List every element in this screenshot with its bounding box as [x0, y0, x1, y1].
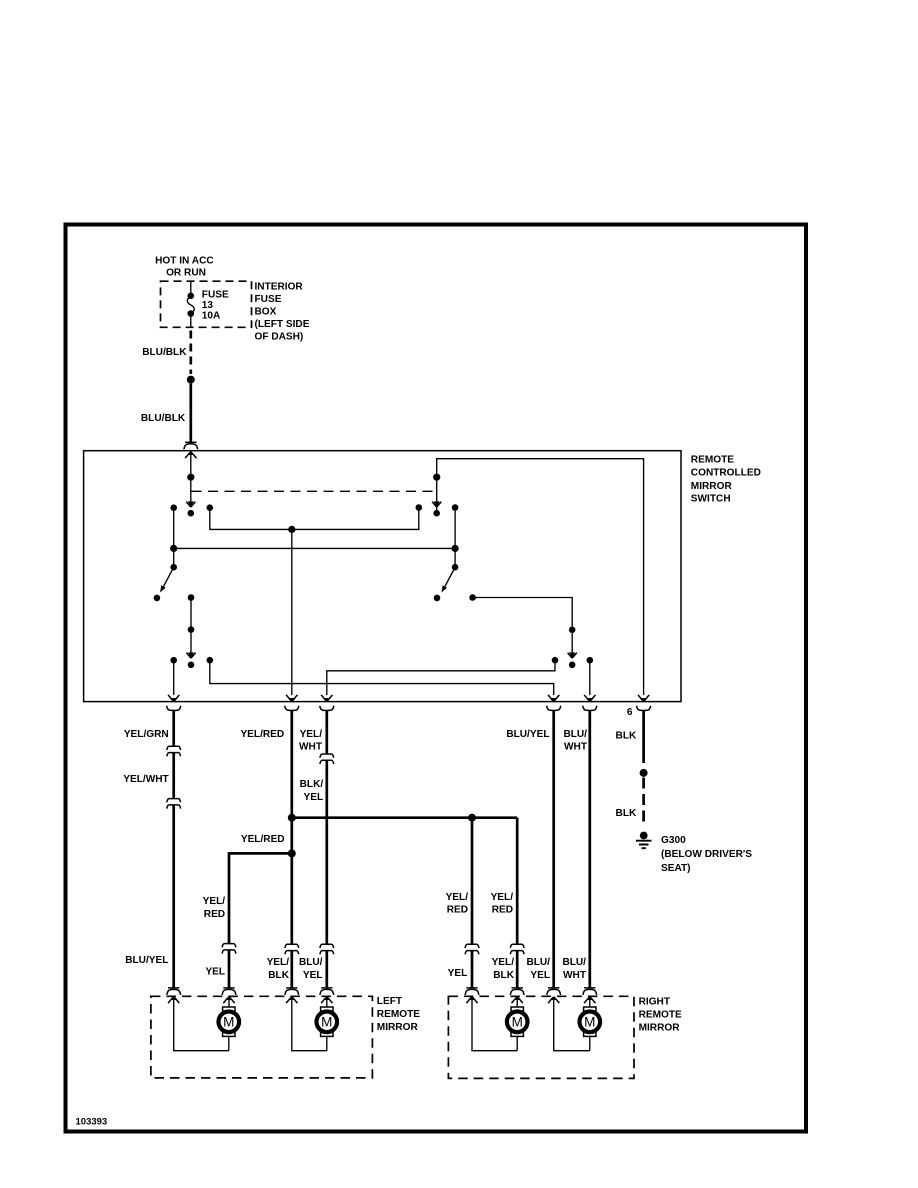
wire — [516, 997, 518, 1008]
terminal arrow — [321, 997, 332, 1003]
wire to terminal BLU/YEL — [210, 660, 554, 695]
svg-text:103393: 103393 — [76, 1117, 108, 1128]
node YEL/RED takeoff — [288, 526, 295, 533]
svg-text:SEAT): SEAT) — [661, 863, 691, 874]
fuse 13 10A — [190, 281, 192, 295]
svg-text:YEL/: YEL/ — [267, 957, 290, 968]
node — [452, 545, 459, 552]
inline connector — [320, 944, 334, 954]
wire loop to motor M2 — [292, 997, 327, 1051]
node — [170, 545, 177, 552]
connector below terminal 3 — [320, 706, 334, 711]
inline connector col H — [510, 944, 524, 954]
svg-text:BLK: BLK — [268, 970, 289, 981]
svg-text:YEL: YEL — [205, 967, 225, 978]
node — [640, 769, 648, 777]
wire — [190, 452, 192, 477]
right assembly feed from top — [437, 459, 644, 695]
terminal arrow YEL/RED — [286, 695, 297, 701]
motor M2 — [317, 1007, 338, 1036]
wire to terminal BLU/WHT — [589, 660, 591, 695]
svg-text:BLU/: BLU/ — [299, 957, 323, 968]
wire loop to motor M1 — [174, 997, 229, 1051]
switch wiper S1c — [186, 652, 195, 658]
border frame — [66, 225, 807, 1132]
svg-text:YEL/WHT: YEL/WHT — [123, 774, 169, 785]
wire YEL/GRN — [172, 711, 175, 746]
inline connector — [320, 754, 334, 764]
svg-text:LEFT: LEFT — [377, 996, 403, 1007]
ground G300 — [636, 832, 652, 849]
contact — [552, 657, 559, 664]
contact — [207, 657, 214, 664]
svg-text:BLU/: BLU/ — [526, 957, 550, 968]
switch wiper S2a — [432, 501, 441, 507]
svg-text:G300: G300 — [661, 835, 686, 846]
wire down right mirror 2 — [516, 818, 519, 944]
svg-text:YEL/GRN: YEL/GRN — [124, 729, 169, 740]
svg-text:YEL: YEL — [304, 792, 324, 803]
interior fuse box (dashed) — [161, 281, 252, 327]
svg-text:BLK: BLK — [616, 808, 637, 819]
contact — [587, 657, 594, 664]
wire BLK — [642, 711, 645, 763]
wire to terminal YEL/WHT — [327, 660, 555, 695]
svg-text:RIGHT: RIGHT — [639, 996, 671, 1007]
wire BLU/BLK solid to switch — [189, 384, 192, 442]
svg-text:(LEFT SIDE: (LEFT SIDE — [255, 319, 310, 330]
node — [433, 474, 440, 481]
contact — [154, 595, 161, 602]
svg-text:(BELOW DRIVER'S: (BELOW DRIVER'S — [661, 849, 752, 860]
node — [569, 627, 576, 634]
contact — [170, 504, 177, 511]
svg-text:BLK/: BLK/ — [300, 779, 324, 790]
terminal arrow — [286, 997, 297, 1003]
svg-text:10A: 10A — [202, 311, 221, 322]
switch lever S2b — [452, 564, 459, 571]
wire cross link — [174, 547, 455, 549]
svg-text:BLU/YEL: BLU/YEL — [506, 729, 549, 740]
svg-text:YEL: YEL — [303, 970, 323, 981]
wire BLK/YEL — [325, 761, 328, 944]
right remote mirror box (dashed) — [448, 996, 634, 1078]
wire — [326, 1036, 328, 1051]
svg-text:WHT: WHT — [564, 742, 588, 753]
wire — [589, 1036, 591, 1051]
wire loop to motor M4 — [554, 997, 590, 1051]
svg-text:BOX: BOX — [255, 306, 277, 317]
wire BLU/WHT — [588, 711, 591, 988]
inline connector col I — [222, 944, 236, 954]
svg-text:YEL/: YEL/ — [492, 957, 515, 968]
connector below terminal 5 — [583, 706, 597, 711]
wire — [326, 997, 328, 1008]
wire — [173, 548, 175, 567]
wire YEL/WHT — [325, 711, 328, 753]
svg-text:BLU/: BLU/ — [563, 729, 587, 740]
svg-text:13: 13 — [202, 300, 214, 311]
svg-text:BLK: BLK — [493, 970, 514, 981]
node branch left — [288, 849, 296, 857]
svg-text:REMOTE: REMOTE — [639, 1009, 682, 1020]
svg-text:BLU/BLK: BLU/BLK — [142, 347, 187, 358]
wire — [210, 508, 419, 530]
motor M1 — [219, 1007, 240, 1036]
contact — [452, 504, 459, 511]
svg-text:YEL/: YEL/ — [446, 892, 469, 903]
wire — [516, 1036, 518, 1051]
terminal arrow — [223, 997, 234, 1003]
svg-text:MIRROR: MIRROR — [639, 1022, 681, 1033]
wire BLK dashed — [642, 778, 645, 823]
svg-text:MIRROR: MIRROR — [377, 1022, 419, 1033]
svg-text:FUSE: FUSE — [202, 290, 229, 301]
mechanical link (dashed) — [192, 490, 437, 492]
wire — [291, 529, 293, 695]
connector at left mirror — [167, 988, 181, 995]
svg-text:YEL/RED: YEL/RED — [240, 729, 284, 740]
svg-text:RED: RED — [204, 909, 225, 920]
wire — [589, 997, 591, 1008]
wire — [190, 477, 192, 502]
switch wiper S1a — [186, 501, 195, 507]
wire loop to motor M3 — [472, 997, 517, 1051]
connector below terminal 1 — [167, 706, 181, 711]
svg-text:YEL/: YEL/ — [300, 729, 323, 740]
terminal arrow input — [185, 452, 196, 458]
inline connector col G — [465, 944, 479, 954]
wire BLU/YEL long — [172, 805, 175, 988]
inline connector — [167, 799, 181, 809]
switch lever S1b — [170, 564, 177, 571]
contact — [207, 504, 214, 511]
connector below terminal 4 — [547, 706, 561, 711]
contact — [434, 595, 441, 602]
wire — [173, 508, 175, 549]
svg-text:OR RUN: OR RUN — [166, 268, 206, 279]
left remote mirror box (dashed) — [151, 996, 373, 1078]
connector at switch box top — [184, 442, 198, 449]
svg-text:BLU/BLK: BLU/BLK — [141, 413, 186, 424]
connector below terminal 6 — [636, 706, 650, 711]
terminal arrow — [584, 997, 595, 1003]
svg-text:HOT IN ACC: HOT IN ACC — [155, 255, 214, 266]
wire down right mirror 1 — [471, 818, 474, 944]
motor M3 — [507, 1007, 528, 1036]
contact feed down — [188, 594, 195, 601]
svg-text:YEL/: YEL/ — [203, 896, 226, 907]
svg-text:YEL: YEL — [530, 970, 550, 981]
node on branch — [468, 814, 476, 822]
svg-text:YEL/RED: YEL/RED — [241, 834, 285, 845]
connector below terminal 2 — [285, 706, 299, 711]
node branch right — [288, 814, 296, 822]
wire to terminal YEL/GRN — [173, 660, 175, 695]
node — [188, 626, 195, 633]
inline connector col B — [285, 944, 299, 954]
terminal arrow — [512, 997, 523, 1003]
svg-text:SWITCH: SWITCH — [691, 493, 731, 504]
terminal arrow — [168, 997, 179, 1003]
terminal arrow — [548, 997, 559, 1003]
wire branch to right mirror — [292, 816, 517, 819]
svg-text:RED: RED — [492, 904, 513, 915]
svg-text:BLK: BLK — [616, 730, 637, 741]
contact — [170, 657, 177, 664]
inline connector — [167, 746, 181, 756]
contact — [416, 504, 423, 511]
wire — [228, 997, 230, 1008]
wire BLU/YEL — [552, 711, 555, 988]
svg-text:MIRROR: MIRROR — [691, 481, 733, 492]
svg-text:REMOTE: REMOTE — [377, 1009, 420, 1020]
svg-text:WHT: WHT — [563, 970, 587, 981]
svg-text:WHT: WHT — [299, 742, 323, 753]
svg-text:YEL: YEL — [448, 968, 468, 979]
svg-text:YEL/: YEL/ — [491, 892, 514, 903]
svg-text:REMOTE: REMOTE — [691, 455, 734, 466]
wire BLU/BLK dashed from fuse box — [189, 331, 192, 375]
svg-text:BLU/: BLU/ — [562, 957, 586, 968]
svg-text:OF DASH): OF DASH) — [255, 331, 304, 342]
svg-text:BLU/YEL: BLU/YEL — [125, 955, 168, 966]
remote controlled mirror switch box — [84, 451, 681, 702]
svg-text:RED: RED — [447, 904, 468, 915]
svg-text:6: 6 — [627, 707, 633, 718]
wire branch to left motor — [229, 853, 292, 943]
splice node — [187, 376, 195, 384]
wire YEL/RED — [290, 711, 293, 944]
motor M4 — [580, 1007, 601, 1036]
connector cups at mirrors — [222, 988, 236, 995]
wire — [228, 1036, 230, 1051]
terminal arrow — [466, 997, 477, 1003]
switch wiper S2c — [568, 652, 577, 658]
svg-text:CONTROLLED: CONTROLLED — [691, 468, 761, 479]
contact feed right — [469, 594, 476, 601]
svg-text:FUSE: FUSE — [255, 294, 282, 305]
svg-text:INTERIOR: INTERIOR — [255, 281, 304, 292]
node — [187, 474, 194, 481]
wire — [454, 508, 456, 568]
wire YEL/WHT — [172, 753, 175, 798]
